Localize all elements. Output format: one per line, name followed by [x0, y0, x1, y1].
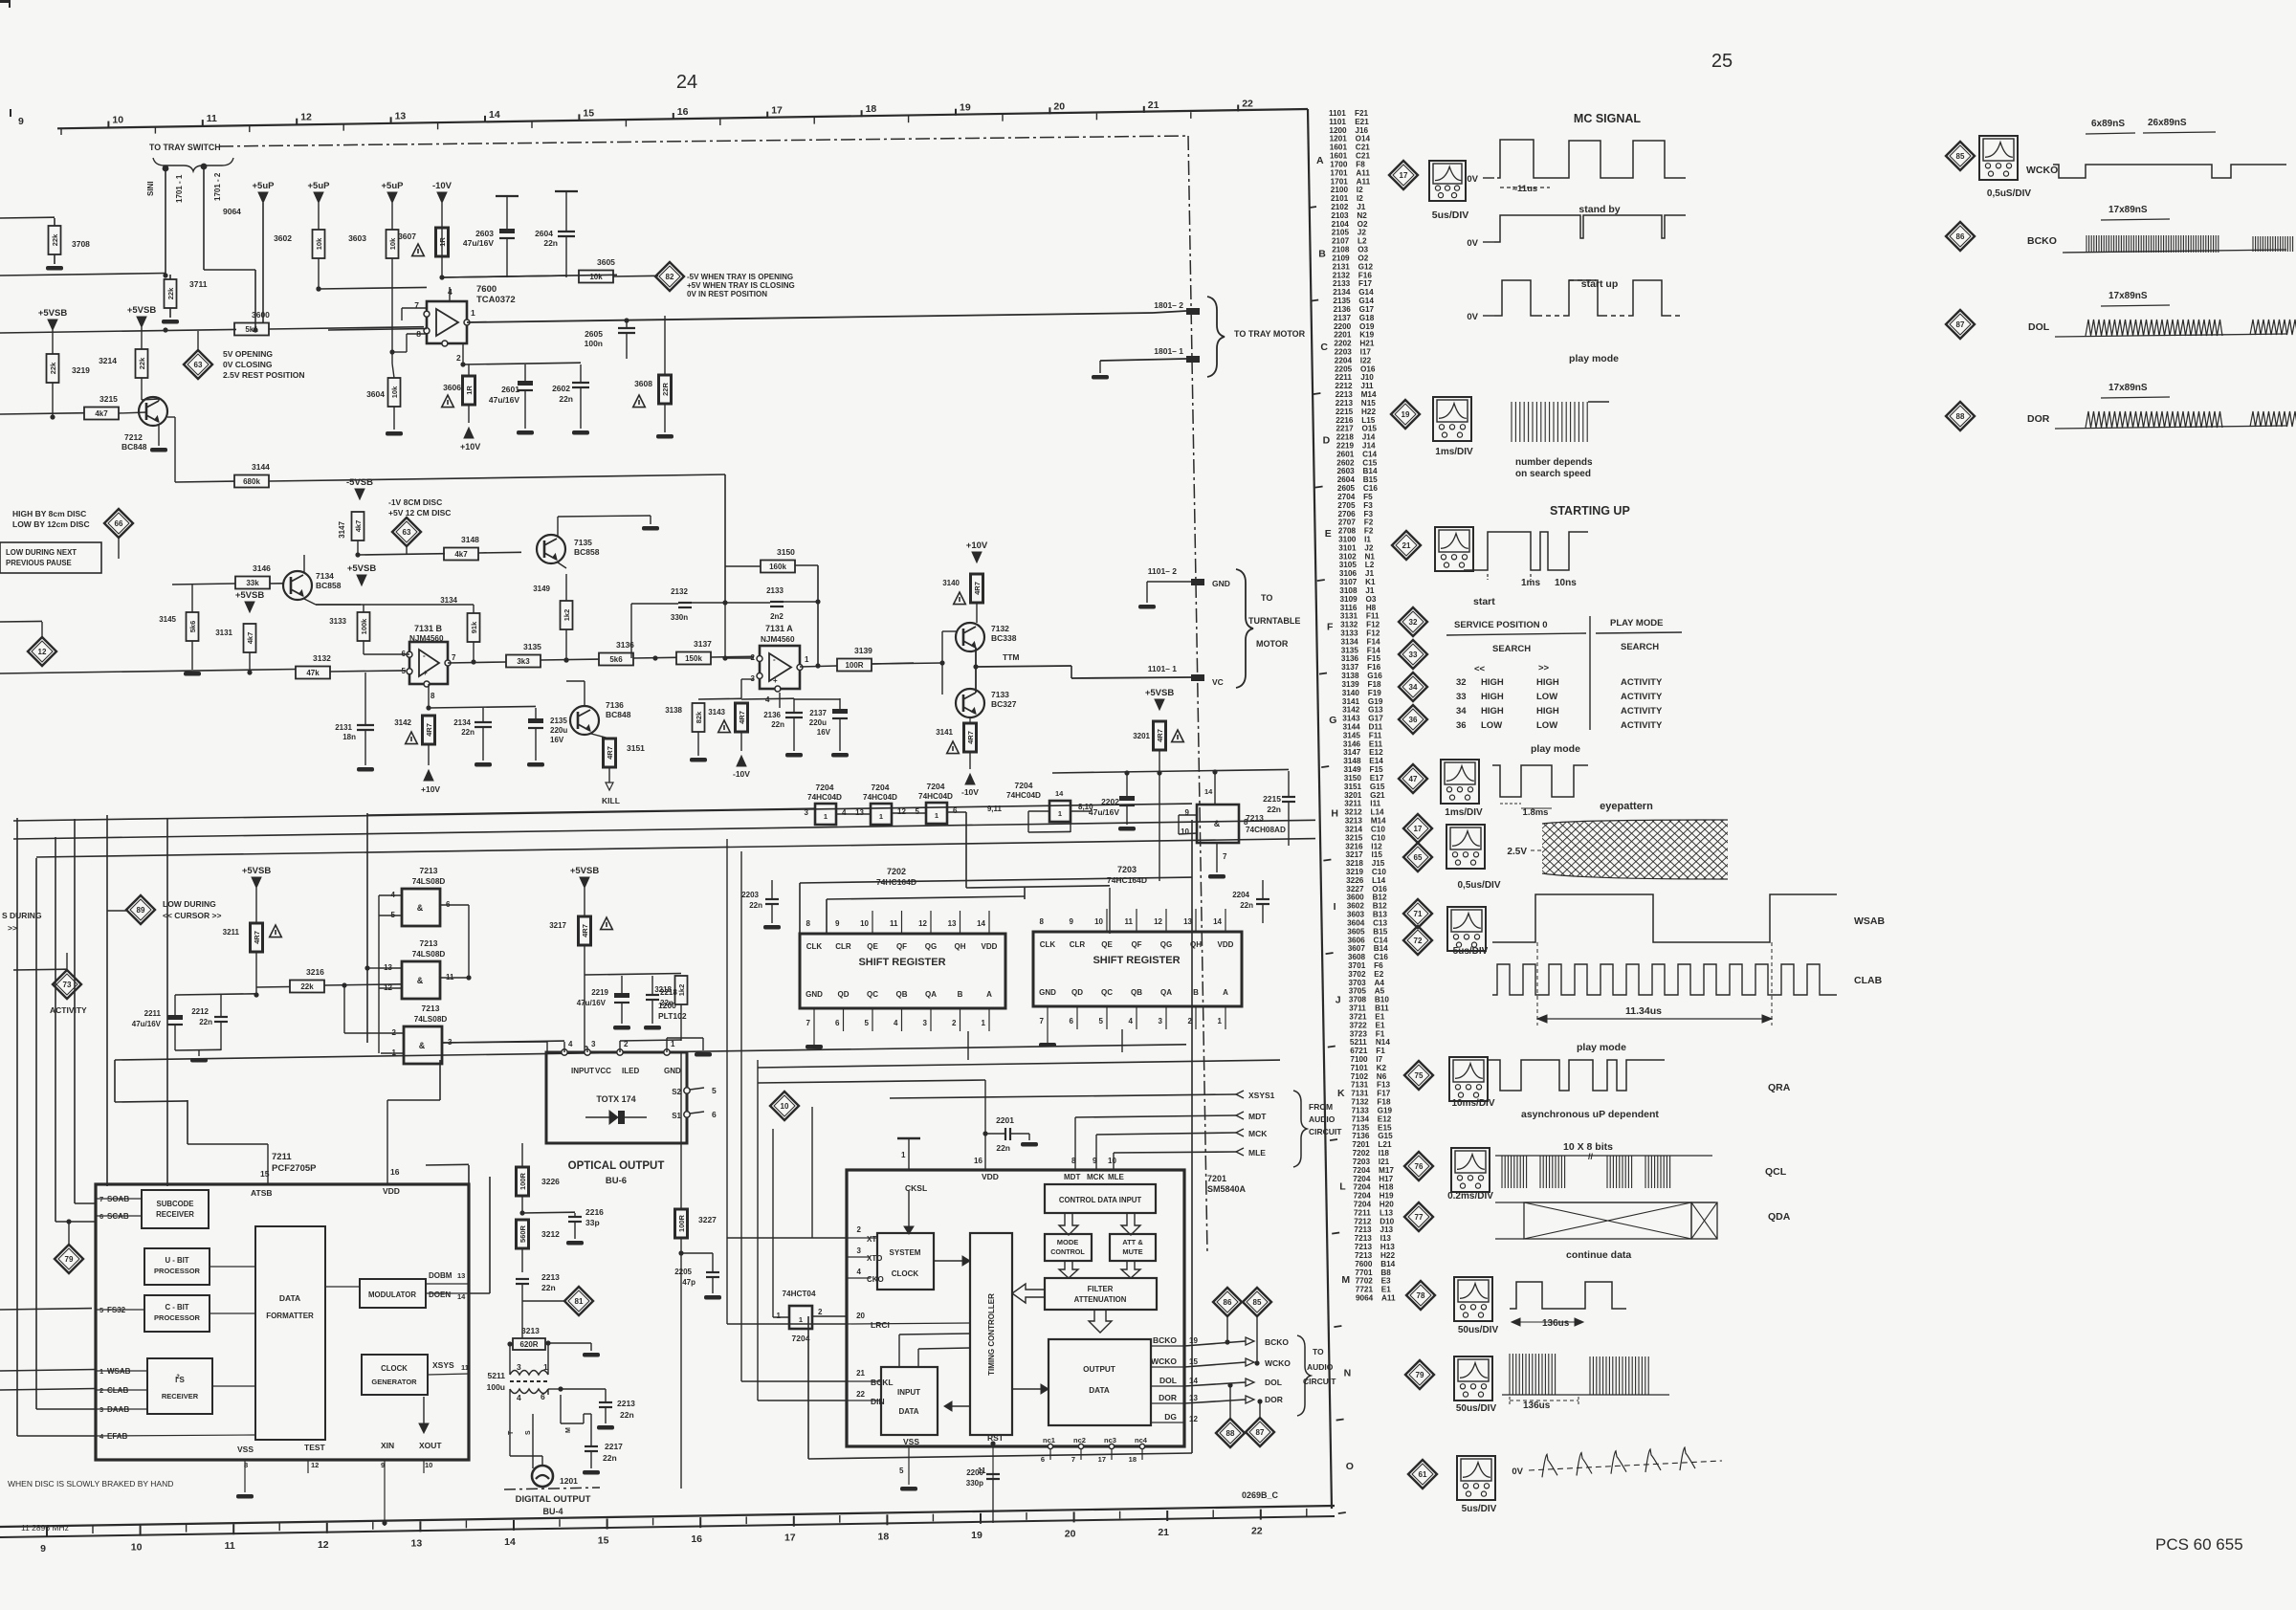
svg-text:15: 15	[598, 1535, 609, 1547]
svg-text:MLE: MLE	[1248, 1148, 1266, 1158]
svg-text:87: 87	[1256, 1428, 1265, 1437]
diamond 10 left of SM	[770, 1092, 799, 1120]
svg-text:3608: 3608	[634, 379, 652, 388]
wire 7131A in/out	[725, 657, 754, 659]
svg-text:7600: 7600	[1355, 1260, 1373, 1268]
diamond 61	[1408, 1460, 1437, 1489]
op-amp U7131B NJM4560	[409, 642, 448, 684]
svg-text:I12: I12	[1371, 842, 1382, 850]
svg-text:1: 1	[1058, 809, 1062, 818]
svg-text:7132: 7132	[1351, 1098, 1369, 1107]
oscilloscope 50us b	[1454, 1356, 1492, 1400]
diamond 73 ACTIVITY	[53, 970, 81, 999]
svg-text:47u/16V: 47u/16V	[1089, 807, 1119, 817]
FROM AUDIO CIRCUIT brace	[1293, 1091, 1307, 1167]
svg-text:3132: 3132	[1340, 621, 1358, 629]
svg-text:3: 3	[857, 1246, 862, 1255]
svg-text:GND: GND	[1039, 988, 1056, 997]
capacitor 2211 47u/16V	[167, 1015, 183, 1020]
svg-text:7133: 7133	[1352, 1107, 1370, 1115]
capacitor 2604 22n	[558, 231, 575, 232]
svg-text:3148: 3148	[1343, 757, 1361, 765]
svg-text:F14: F14	[1367, 646, 1381, 654]
svg-text:I2: I2	[1357, 194, 1363, 203]
svg-text:M17: M17	[1379, 1166, 1394, 1175]
svg-text:WCKO: WCKO	[1265, 1358, 1291, 1368]
svg-text:CONTROL DATA INPUT: CONTROL DATA INPUT	[1059, 1196, 1142, 1204]
svg-text:G12: G12	[1358, 262, 1374, 271]
svg-text:QCL: QCL	[1765, 1166, 1787, 1178]
svg-text:14: 14	[1055, 789, 1064, 798]
svg-text:5: 5	[899, 1467, 904, 1475]
QCL burst waveform	[1495, 1155, 1712, 1157]
svg-text:3145: 3145	[159, 615, 176, 624]
svg-text:F11: F11	[1366, 612, 1380, 621]
svg-text:2101: 2101	[1331, 194, 1349, 203]
svg-text://: //	[1588, 1152, 1594, 1161]
svg-text:2707: 2707	[1338, 518, 1357, 527]
svg-text:7136: 7136	[606, 700, 624, 710]
svg-text:3: 3	[1159, 1017, 1163, 1026]
resistor 3136 5k6	[599, 653, 633, 666]
svg-text:1: 1	[824, 812, 828, 821]
svg-text:VDD: VDD	[982, 1172, 999, 1181]
+5VSB arrows left	[48, 320, 57, 330]
digital output dash-dot boundary	[504, 1488, 600, 1489]
svg-text:2104: 2104	[1332, 220, 1350, 229]
svg-text:560R: 560R	[519, 1224, 527, 1243]
svg-text:E15: E15	[1378, 1123, 1392, 1132]
svg-text:QC: QC	[867, 990, 878, 999]
svg-text:1601: 1601	[1330, 143, 1348, 152]
svg-text:CLAB: CLAB	[1854, 975, 1883, 986]
resistor 3226 100R	[517, 1167, 529, 1196]
svg-text:1k2: 1k2	[563, 609, 571, 622]
svg-text:+: +	[423, 669, 428, 677]
svg-text:7203: 7203	[1117, 865, 1137, 874]
svg-text:3702: 3702	[1348, 970, 1366, 979]
resistor 3137 150k	[676, 652, 711, 665]
svg-text:2604: 2604	[1337, 475, 1356, 484]
long bus line 2	[13, 820, 1315, 839]
shift register upper wiring	[800, 877, 1192, 883]
capacitor 2205 47p	[706, 1271, 719, 1273]
svg-text:RST: RST	[987, 1433, 1004, 1443]
svg-text:74LS08D: 74LS08D	[414, 1015, 448, 1024]
resistor 3143 4R7	[736, 703, 748, 732]
svg-text:3214: 3214	[1345, 825, 1363, 833]
svg-text:74CH08AD: 74CH08AD	[1246, 826, 1286, 834]
oscilloscope 1ms/DIV b	[1441, 760, 1479, 804]
svg-text:7131 B: 7131 B	[414, 624, 443, 633]
diamond 88 dor	[1946, 402, 1975, 430]
svg-text:1: 1	[935, 811, 938, 820]
svg-text:K19: K19	[1359, 331, 1374, 340]
svg-text:22n: 22n	[996, 1143, 1010, 1153]
svg-text:LOW DURING: LOW DURING	[163, 899, 216, 909]
svg-text:+5VSB: +5VSB	[242, 866, 272, 876]
svg-text:2107: 2107	[1332, 237, 1350, 246]
svg-text:SEARCH: SEARCH	[1621, 642, 1659, 652]
svg-text:19: 19	[1189, 1336, 1198, 1345]
svg-text:1101: 1101	[1329, 118, 1346, 126]
svg-text:11: 11	[207, 113, 217, 124]
svg-text:TO TRAY SWITCH: TO TRAY SWITCH	[149, 143, 221, 152]
resistor 3218 1k2	[675, 976, 688, 1004]
svg-text:4k7: 4k7	[454, 550, 468, 559]
transformer T5211 secondary	[510, 1389, 548, 1394]
svg-text:50us/DIV: 50us/DIV	[1458, 1325, 1499, 1335]
svg-text:1701: 1701	[1331, 177, 1349, 186]
svg-text:J2: J2	[1358, 229, 1367, 237]
svg-text:F17: F17	[1358, 279, 1373, 288]
svg-text:12: 12	[1189, 1415, 1198, 1423]
svg-text:N15: N15	[1361, 399, 1376, 408]
svg-text:2217: 2217	[605, 1442, 623, 1451]
svg-text:BC338: BC338	[991, 633, 1017, 643]
svg-text:16: 16	[677, 106, 689, 118]
svg-text:3140: 3140	[942, 579, 960, 587]
svg-text:4R7: 4R7	[1156, 729, 1164, 742]
svg-text:F19: F19	[1368, 689, 1382, 697]
svg-text:2136: 2136	[763, 711, 781, 719]
svg-text:<< CURSOR >>: << CURSOR >>	[163, 911, 221, 920]
svg-text:7211: 7211	[1354, 1208, 1371, 1217]
svg-text:3711: 3711	[189, 279, 208, 289]
oscilloscope icon 5us/DIV	[1429, 161, 1466, 201]
svg-text:7100: 7100	[1350, 1055, 1368, 1064]
svg-text:4: 4	[857, 1268, 862, 1276]
right border line	[1308, 109, 1332, 1509]
svg-text:3137: 3137	[1341, 663, 1359, 672]
resistor 3147 4k7	[352, 512, 364, 540]
svg-text:5us/DIV: 5us/DIV	[1432, 210, 1469, 221]
svg-text:<<: <<	[1474, 664, 1486, 674]
svg-text:73: 73	[63, 981, 72, 989]
svg-text:F12: F12	[1366, 629, 1380, 638]
svg-text:3606: 3606	[443, 383, 461, 392]
svg-text:I1: I1	[1364, 536, 1371, 544]
svg-text:TO: TO	[1261, 593, 1272, 603]
big arrow mode->filter	[1059, 1261, 1078, 1278]
resistor 3212 560R	[517, 1220, 529, 1248]
timing->input arrow	[952, 1405, 970, 1407]
+5VSB above 3211	[252, 877, 261, 888]
svg-text:7213: 7213	[422, 1003, 440, 1013]
svg-text:RECEIVER: RECEIVER	[162, 1392, 199, 1400]
svg-text:14: 14	[489, 109, 500, 121]
U-BIT processor block	[144, 1248, 210, 1285]
svg-text:2105: 2105	[1332, 229, 1350, 237]
svg-text:INPUT: INPUT	[571, 1067, 594, 1075]
IC U7201 SM5840A outer box	[847, 1170, 1184, 1446]
svg-text:13: 13	[411, 1537, 423, 1549]
svg-text:E3: E3	[1381, 1277, 1391, 1286]
svg-text:1: 1	[777, 1312, 782, 1320]
svg-text:7: 7	[452, 653, 456, 662]
MC signal standby waveform	[1497, 140, 1686, 178]
svg-text:8: 8	[430, 692, 435, 700]
svg-text:TIMING CONTROLLER: TIMING CONTROLLER	[987, 1293, 996, 1376]
svg-text:PCS 60 655: PCS 60 655	[2155, 1535, 2243, 1554]
svg-text:47p: 47p	[682, 1278, 695, 1287]
svg-text:NJM4560: NJM4560	[761, 635, 795, 644]
svg-text:CLK: CLK	[1040, 940, 1056, 949]
svg-text:ACTIVITY: ACTIVITY	[1621, 720, 1663, 731]
svg-text:SHIFT REGISTER: SHIFT REGISTER	[858, 957, 945, 968]
svg-text:WSAB: WSAB	[1854, 915, 1885, 927]
svg-text:DATA: DATA	[279, 1293, 300, 1303]
svg-text:BU-6: BU-6	[606, 1176, 627, 1186]
diamond 79b	[1405, 1360, 1434, 1389]
svg-text:F21: F21	[1355, 109, 1369, 118]
svg-text:&: &	[1214, 819, 1221, 828]
svg-text:18: 18	[1129, 1455, 1137, 1464]
capacitor 2133 2n2	[770, 601, 784, 603]
phono connector 1201	[532, 1466, 553, 1487]
svg-text:7203: 7203	[1353, 1158, 1371, 1166]
svg-text:2213: 2213	[617, 1399, 635, 1408]
svg-text:220u: 220u	[809, 718, 827, 727]
svg-text:2202: 2202	[1334, 340, 1352, 348]
svg-text:3227: 3227	[1346, 885, 1364, 893]
svg-text:play mode: play mode	[1531, 743, 1580, 755]
svg-text:2205: 2205	[674, 1268, 692, 1276]
svg-text:AUDIO: AUDIO	[1307, 1362, 1334, 1372]
svg-text:7: 7	[1071, 1455, 1075, 1464]
svg-text:3723: 3723	[1350, 1029, 1368, 1038]
capacitor 2200 330p	[986, 1473, 1000, 1475]
svg-text:3100: 3100	[1338, 536, 1357, 544]
svg-text:7213: 7213	[420, 938, 438, 948]
svg-text:J16: J16	[1355, 126, 1368, 135]
-10V below 3143	[737, 756, 746, 766]
svg-text:+10V: +10V	[966, 540, 988, 551]
svg-text:150k: 150k	[685, 654, 702, 663]
svg-text:330n: 330n	[671, 613, 688, 622]
svg-text:J2: J2	[1364, 543, 1374, 552]
svg-text:3144: 3144	[1343, 723, 1361, 732]
svg-text:10: 10	[860, 919, 869, 928]
svg-text:3722: 3722	[1350, 1021, 1368, 1029]
svg-text:7213: 7213	[1355, 1234, 1373, 1243]
svg-text:L14: L14	[1371, 808, 1385, 817]
svg-text:86: 86	[1224, 1298, 1232, 1307]
svg-text:-: -	[423, 651, 426, 660]
svg-text:3142: 3142	[394, 718, 411, 727]
svg-text:CLR: CLR	[835, 942, 851, 951]
wire 3139 to bases	[872, 663, 942, 664]
svg-text:G14: G14	[1358, 297, 1374, 305]
svg-text:3149: 3149	[1344, 765, 1362, 774]
svg-text:E: E	[1325, 528, 1332, 540]
svg-text:2202: 2202	[1101, 797, 1119, 806]
wire 7600 pin2 node	[462, 343, 464, 364]
AND gate U7213 74CH08AD	[1197, 805, 1239, 843]
svg-text:GENERATOR: GENERATOR	[371, 1378, 417, 1386]
svg-text:4R7: 4R7	[973, 582, 982, 595]
svg-text:D: D	[1323, 435, 1331, 447]
svg-text:PROCESSOR: PROCESSOR	[154, 1267, 201, 1275]
svg-text:22n: 22n	[749, 901, 762, 910]
svg-text:7204: 7204	[872, 783, 890, 792]
svg-text:GND: GND	[806, 990, 823, 999]
svg-text:L2: L2	[1358, 237, 1367, 246]
svg-text:N14: N14	[1376, 1038, 1390, 1047]
svg-text:47u/16V: 47u/16V	[489, 395, 519, 405]
svg-text:4: 4	[842, 808, 847, 817]
svg-text:F6: F6	[1374, 961, 1383, 970]
svg-text:2218: 2218	[1336, 433, 1355, 442]
svg-text:7701: 7701	[1355, 1268, 1373, 1277]
svg-text:B8: B8	[1380, 1268, 1391, 1277]
svg-text:O16: O16	[1360, 364, 1376, 373]
svg-text:QE: QE	[867, 942, 878, 951]
svg-text:7204: 7204	[1353, 1166, 1371, 1175]
svg-text:HIGH BY 8cm DISC: HIGH BY 8cm DISC	[12, 509, 86, 518]
svg-text:DOL: DOL	[1159, 1376, 1177, 1385]
svg-text:VC: VC	[1212, 677, 1224, 687]
svg-text:7134: 7134	[1352, 1114, 1370, 1123]
svg-text:12: 12	[311, 1461, 319, 1469]
svg-text:MCK: MCK	[1087, 1173, 1104, 1181]
svg-text:3131: 3131	[1340, 612, 1358, 621]
svg-text:QF: QF	[896, 942, 907, 951]
svg-text:+10V: +10V	[421, 784, 440, 794]
svg-text:G13: G13	[1368, 706, 1383, 715]
svg-text:3607: 3607	[398, 232, 416, 241]
wire tray switch 1701-1	[165, 168, 166, 275]
oscilloscope eye	[1446, 825, 1485, 869]
svg-text:7: 7	[1223, 852, 1227, 861]
svg-text:74LS08D: 74LS08D	[412, 950, 446, 959]
QRA waveform	[1488, 1060, 1665, 1091]
MDT arrow	[1075, 1115, 1236, 1117]
capacitor 2213b 22n	[599, 1401, 612, 1403]
svg-text:B13: B13	[1373, 911, 1387, 919]
svg-text:1: 1	[901, 1151, 906, 1159]
svg-text:3608: 3608	[1348, 953, 1366, 961]
svg-text:1: 1	[982, 1019, 986, 1027]
svg-text:4: 4	[517, 1393, 521, 1402]
svg-text:79: 79	[1416, 1371, 1424, 1379]
svg-text:3150: 3150	[777, 547, 795, 557]
svg-text:2203: 2203	[741, 891, 759, 899]
svg-text:2134: 2134	[453, 718, 471, 727]
svg-text:36: 36	[1409, 716, 1418, 724]
svg-text:88: 88	[1226, 1429, 1235, 1438]
resistor 3602 10k	[313, 230, 325, 258]
resistor 3151 4R7	[604, 739, 616, 767]
svg-text:QRA: QRA	[1768, 1082, 1791, 1093]
svg-text:22n: 22n	[559, 394, 573, 404]
svg-text:6: 6	[835, 1019, 840, 1027]
svg-text:10: 10	[781, 1102, 789, 1111]
svg-text:22n: 22n	[1240, 901, 1253, 910]
svg-text:3607: 3607	[1348, 944, 1366, 953]
svg-text:3143: 3143	[1342, 715, 1360, 723]
svg-text:3148: 3148	[461, 535, 479, 544]
svg-text:2108: 2108	[1332, 246, 1350, 254]
svg-text:M14: M14	[1361, 390, 1377, 399]
svg-text:77: 77	[1415, 1213, 1424, 1222]
svg-text:MODE: MODE	[1057, 1238, 1079, 1246]
svg-text:8: 8	[1040, 917, 1045, 926]
svg-text:3603: 3603	[1347, 911, 1365, 919]
svg-text:-1V 8CM DISC: -1V 8CM DISC	[388, 497, 442, 507]
wire op-amp inputs	[328, 329, 427, 331]
svg-text:F5: F5	[1363, 493, 1373, 501]
mode control block	[1045, 1234, 1092, 1261]
svg-text:G15: G15	[1378, 1132, 1393, 1140]
transformer T5211 primary	[509, 1344, 511, 1363]
svg-text:F12: F12	[1366, 621, 1380, 629]
svg-text:O: O	[1346, 1461, 1354, 1472]
svg-text:A11: A11	[1357, 177, 1371, 186]
IC U7211 PCF2705P outer box	[96, 1184, 469, 1460]
svg-text:G17: G17	[1359, 305, 1375, 314]
svg-text:10: 10	[1108, 1157, 1116, 1165]
svg-text:74HC164D: 74HC164D	[1107, 875, 1147, 885]
diamond 79	[55, 1245, 83, 1273]
resistor 3216 22k	[290, 981, 324, 993]
svg-text:ATTENUATION: ATTENUATION	[1074, 1295, 1127, 1304]
svg-text:7213: 7213	[1246, 813, 1264, 823]
resistor 3145 5k6	[187, 612, 199, 641]
svg-text:16: 16	[390, 1167, 400, 1177]
svg-text:OPTICAL OUTPUT: OPTICAL OUTPUT	[568, 1160, 665, 1172]
capacitor 2203 22n	[765, 898, 779, 900]
svg-text:XSYS: XSYS	[432, 1360, 454, 1370]
svg-text:2215: 2215	[1263, 794, 1281, 804]
resistor 3214 22k	[136, 349, 148, 378]
svg-text:MOTOR: MOTOR	[1256, 639, 1289, 649]
svg-text:C16: C16	[1363, 484, 1378, 493]
svg-text:BCKL: BCKL	[871, 1378, 894, 1387]
svg-text:B11: B11	[1375, 1004, 1389, 1013]
svg-text:6: 6	[1041, 1455, 1045, 1464]
resistor 3215 4k7	[84, 408, 119, 420]
svg-text:7213: 7213	[1355, 1243, 1373, 1251]
svg-text:MDT: MDT	[1064, 1173, 1080, 1181]
svg-text:1ms: 1ms	[1521, 578, 1540, 588]
svg-text:5k1: 5k1	[245, 325, 258, 334]
svg-text:QG: QG	[1160, 940, 1172, 949]
svg-text:KILL: KILL	[602, 796, 620, 805]
svg-text:F: F	[1327, 622, 1334, 633]
bottom wire under SM5840A	[808, 1453, 1192, 1459]
+10V below 3142	[424, 770, 433, 781]
svg-text:47: 47	[1409, 775, 1418, 783]
svg-text:QH: QH	[1190, 940, 1202, 949]
svg-text:136us: 136us	[1542, 1318, 1570, 1329]
svg-text:2216: 2216	[1336, 416, 1354, 425]
svg-text:on search speed: on search speed	[1515, 469, 1591, 479]
resistor 3201 4R7	[1154, 721, 1166, 750]
diamond 75	[1404, 1061, 1433, 1090]
svg-text:9: 9	[1070, 917, 1074, 926]
capacitor 2131 18n	[357, 724, 374, 726]
svg-text:MUTE: MUTE	[1122, 1247, 1142, 1256]
right long vertical x1246	[1191, 820, 1193, 1453]
svg-text:QB: QB	[1131, 988, 1142, 997]
svg-text:VSS: VSS	[237, 1445, 254, 1454]
diamond 17 eye	[1403, 814, 1432, 843]
scan corner mark	[0, 0, 10, 3]
svg-text:17x89nS: 17x89nS	[2108, 383, 2148, 393]
svg-text:7204: 7204	[927, 782, 945, 791]
wire 7131B feedback	[364, 653, 409, 655]
